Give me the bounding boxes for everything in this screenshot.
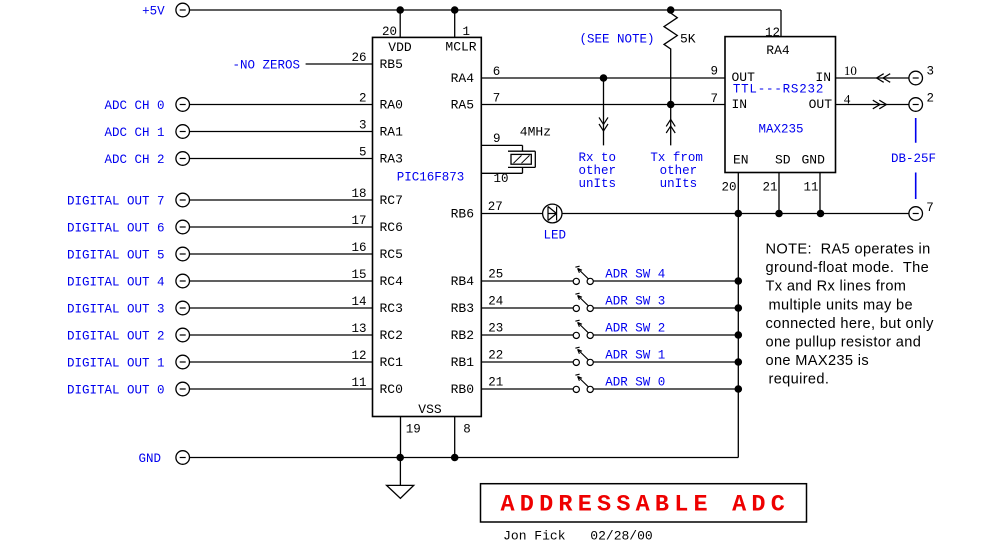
svg-text:RB5: RB5: [380, 57, 403, 72]
svg-text:10: 10: [494, 172, 509, 186]
svg-text:19: 19: [406, 422, 421, 436]
svg-text:RA0: RA0: [380, 98, 403, 113]
svg-text:23: 23: [488, 322, 503, 336]
svg-text:7: 7: [493, 92, 501, 106]
svg-text:ADR SW 3: ADR SW 3: [605, 295, 665, 309]
svg-text:12: 12: [351, 349, 366, 363]
svg-text:02/28/00: 02/28/00: [590, 529, 652, 543]
svg-text:6: 6: [493, 65, 501, 79]
svg-text:RA5: RA5: [451, 98, 474, 113]
svg-text:unIts: unIts: [660, 177, 698, 191]
svg-text:RC1: RC1: [380, 355, 404, 370]
svg-text:RA1: RA1: [380, 125, 404, 140]
svg-text:4MHz: 4MHz: [520, 124, 551, 139]
svg-text:RA3: RA3: [380, 152, 403, 167]
svg-text:other: other: [579, 164, 617, 178]
svg-text:DIGITAL OUT 4: DIGITAL OUT 4: [67, 276, 165, 290]
svg-text:3: 3: [927, 64, 935, 78]
svg-text:VSS: VSS: [418, 402, 442, 417]
svg-text:multiple units may be: multiple units may be: [769, 297, 913, 313]
svg-text:DIGITAL OUT 3: DIGITAL OUT 3: [67, 303, 165, 317]
svg-text:11: 11: [803, 181, 818, 195]
svg-text:11: 11: [351, 376, 366, 390]
svg-text:RB3: RB3: [451, 301, 474, 316]
svg-text:13: 13: [351, 322, 366, 336]
svg-text:ADR SW 1: ADR SW 1: [605, 349, 665, 363]
svg-text:Rx to: Rx to: [579, 151, 617, 165]
svg-text:RB2: RB2: [451, 328, 474, 343]
svg-text:MCLR: MCLR: [445, 40, 476, 55]
svg-text:one MAX235 is: one MAX235 is: [766, 353, 870, 369]
svg-text:RC7: RC7: [380, 193, 403, 208]
svg-text:MAX235: MAX235: [758, 123, 803, 137]
svg-text:18: 18: [351, 187, 366, 201]
svg-text:22: 22: [488, 349, 503, 363]
svg-text:5K: 5K: [680, 32, 696, 47]
svg-text:5: 5: [359, 145, 367, 159]
svg-text:Jon Fick: Jon Fick: [503, 529, 566, 543]
svg-text:RB4: RB4: [451, 274, 475, 289]
svg-text:24: 24: [488, 295, 503, 309]
svg-text:TTL---RS232: TTL---RS232: [733, 83, 824, 97]
svg-text:Tx and Rx lines from: Tx and Rx lines from: [766, 279, 907, 295]
svg-text:9: 9: [710, 64, 718, 78]
svg-text:RB6: RB6: [451, 207, 474, 222]
svg-text:DIGITAL OUT 6: DIGITAL OUT 6: [67, 222, 165, 236]
svg-text:25: 25: [488, 268, 503, 282]
svg-text:2: 2: [927, 91, 935, 105]
svg-text:DIGITAL OUT 7: DIGITAL OUT 7: [67, 195, 165, 209]
svg-text:RC0: RC0: [380, 382, 403, 397]
svg-text:DIGITAL OUT 0: DIGITAL OUT 0: [67, 384, 165, 398]
svg-text:ADDRESSABLE ADC: ADDRESSABLE ADC: [501, 492, 791, 519]
svg-text:10: 10: [844, 63, 857, 78]
svg-text:DIGITAL OUT 2: DIGITAL OUT 2: [67, 330, 165, 344]
svg-text:RA4: RA4: [451, 71, 475, 86]
svg-text:26: 26: [351, 51, 366, 65]
svg-text:other: other: [660, 164, 698, 178]
svg-text:RA4: RA4: [766, 43, 790, 58]
svg-text:20: 20: [382, 25, 397, 39]
svg-text:RB0: RB0: [451, 382, 474, 397]
svg-text:ADC CH 1: ADC CH 1: [104, 126, 164, 140]
svg-text:2: 2: [359, 91, 367, 105]
svg-text:connected here, but only: connected here, but only: [766, 316, 935, 332]
svg-text:ADR SW 0: ADR SW 0: [605, 376, 665, 390]
svg-text:RB1: RB1: [451, 355, 475, 370]
svg-text:17: 17: [351, 214, 366, 228]
svg-text:ground-float mode. The: ground-float mode. The: [766, 260, 930, 276]
svg-text:NOTE: RA5 operates in: NOTE: RA5 operates in: [766, 242, 931, 258]
svg-text:ADC CH 2: ADC CH 2: [104, 153, 164, 167]
svg-text:7: 7: [926, 201, 934, 215]
svg-text:unIts: unIts: [579, 177, 617, 191]
svg-text:DIGITAL OUT 1: DIGITAL OUT 1: [67, 357, 165, 371]
svg-text:9: 9: [493, 132, 501, 146]
svg-text:SD: SD: [775, 153, 791, 168]
svg-text:GND: GND: [802, 153, 826, 168]
svg-text:(SEE NOTE): (SEE NOTE): [579, 33, 654, 47]
svg-text:Tx from: Tx from: [650, 151, 703, 165]
svg-text:12: 12: [765, 26, 780, 40]
svg-text:RC3: RC3: [380, 301, 403, 316]
svg-text:20: 20: [721, 181, 736, 195]
svg-text:15: 15: [351, 268, 366, 282]
svg-text:ADR SW 4: ADR SW 4: [605, 268, 665, 282]
svg-text:21: 21: [762, 181, 777, 195]
svg-text:4: 4: [844, 92, 851, 107]
svg-text:required.: required.: [769, 372, 830, 388]
svg-text:one pullup resistor and: one pullup resistor and: [766, 335, 922, 351]
svg-text:3: 3: [359, 118, 367, 132]
svg-text:IN: IN: [732, 97, 748, 112]
svg-text:RC2: RC2: [380, 328, 403, 343]
svg-text:21: 21: [488, 376, 503, 390]
svg-text:RC5: RC5: [380, 247, 403, 262]
svg-text:RC4: RC4: [380, 274, 404, 289]
svg-text:27: 27: [488, 200, 503, 214]
svg-text:1: 1: [463, 25, 471, 39]
svg-text:PIC16F873: PIC16F873: [397, 171, 465, 185]
svg-text:EN: EN: [733, 153, 749, 168]
svg-text:8: 8: [463, 422, 471, 436]
svg-text:RC6: RC6: [380, 220, 403, 235]
svg-text:LED: LED: [544, 229, 567, 243]
svg-text:16: 16: [351, 241, 366, 255]
svg-text:GND: GND: [138, 452, 161, 466]
svg-text:OUT: OUT: [809, 97, 833, 112]
svg-text:ADR SW 2: ADR SW 2: [605, 322, 665, 336]
svg-text:VDD: VDD: [388, 40, 412, 55]
svg-text:14: 14: [351, 295, 366, 309]
svg-text:ADC CH 0: ADC CH 0: [104, 99, 164, 113]
svg-text:-NO ZEROS: -NO ZEROS: [232, 59, 300, 73]
svg-text:DB-25F: DB-25F: [891, 152, 936, 166]
svg-text:DIGITAL OUT 5: DIGITAL OUT 5: [67, 249, 165, 263]
svg-text:+5V: +5V: [142, 5, 165, 19]
svg-text:7: 7: [710, 92, 718, 106]
